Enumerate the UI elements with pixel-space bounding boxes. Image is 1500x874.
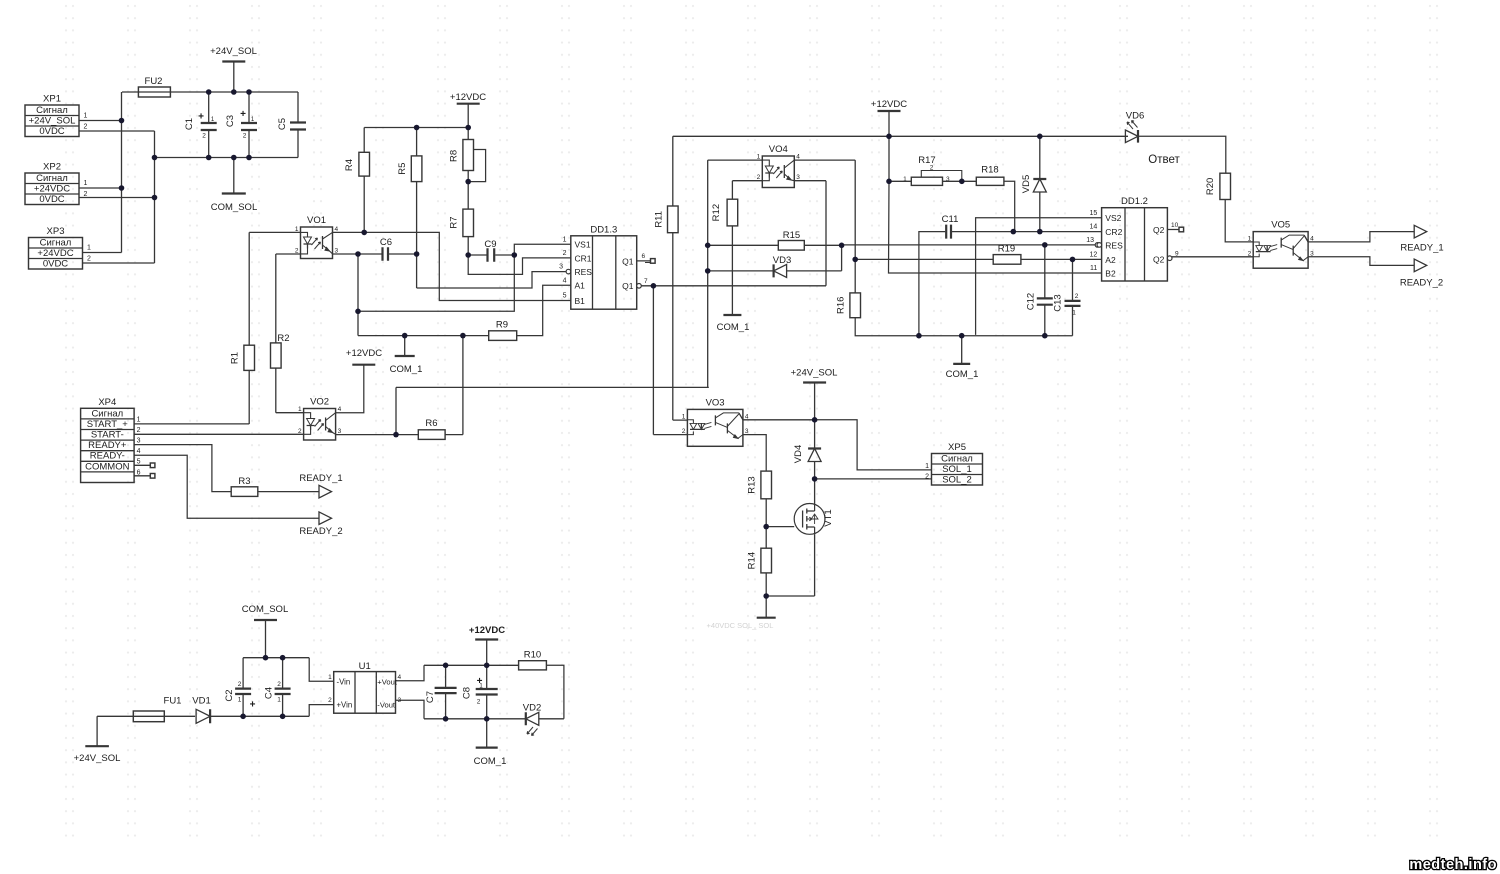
svg-text:COM_1: COM_1	[474, 756, 507, 767]
svg-text:READY_1: READY_1	[299, 473, 342, 484]
svg-text:3: 3	[335, 247, 339, 254]
svg-text:R20: R20	[1205, 178, 1216, 195]
svg-text:COM_SOL: COM_SOL	[211, 202, 257, 213]
svg-text:+12VDC: +12VDC	[871, 99, 907, 110]
svg-text:4: 4	[335, 226, 339, 233]
svg-text:C2: C2	[224, 689, 235, 701]
svg-text:Q1: Q1	[622, 281, 634, 291]
svg-text:1: 1	[925, 463, 929, 470]
svg-text:R15: R15	[783, 230, 800, 241]
svg-text:COM_1: COM_1	[390, 364, 423, 375]
svg-text:C13: C13	[1053, 294, 1064, 311]
svg-text:4: 4	[338, 406, 342, 413]
svg-text:Ответ: Ответ	[1148, 154, 1180, 166]
svg-text:+: +	[198, 112, 204, 123]
svg-text:9: 9	[1175, 250, 1179, 257]
svg-text:1: 1	[328, 674, 332, 681]
svg-text:VS1: VS1	[575, 240, 591, 250]
svg-text:Сигнал: Сигнал	[36, 105, 68, 116]
svg-text:2: 2	[84, 191, 88, 198]
svg-text:R13: R13	[747, 476, 758, 493]
svg-text:-Vin: -Vin	[337, 677, 351, 686]
svg-text:XP5: XP5	[948, 442, 966, 453]
svg-text:VD1: VD1	[192, 696, 210, 707]
svg-text:COM_1: COM_1	[946, 369, 979, 380]
svg-text:3: 3	[338, 428, 342, 435]
svg-text:2: 2	[682, 428, 686, 435]
svg-text:2: 2	[137, 427, 141, 434]
svg-text:4: 4	[563, 278, 567, 285]
svg-text:C1: C1	[184, 118, 195, 130]
svg-text:R14: R14	[747, 552, 758, 569]
svg-text:1: 1	[277, 697, 281, 704]
svg-text:R7: R7	[448, 216, 459, 228]
svg-text:VD3: VD3	[773, 255, 791, 266]
svg-text:VS2: VS2	[1105, 213, 1121, 223]
svg-text:R18: R18	[981, 165, 998, 176]
svg-text:11: 11	[1090, 265, 1097, 272]
svg-text:CR2: CR2	[1105, 227, 1122, 237]
svg-text:R5: R5	[397, 163, 408, 175]
svg-text:2: 2	[925, 473, 929, 480]
svg-text:+24VDC: +24VDC	[34, 183, 70, 194]
svg-text:R16: R16	[836, 297, 847, 314]
svg-text:3: 3	[137, 438, 141, 445]
svg-text:6: 6	[137, 469, 141, 476]
svg-text:2: 2	[277, 681, 281, 688]
svg-text:START_+: START_+	[87, 419, 129, 430]
svg-text:C11: C11	[942, 214, 959, 225]
svg-text:READY_1: READY_1	[1400, 243, 1443, 254]
svg-text:C5: C5	[277, 118, 288, 130]
svg-text:C3: C3	[225, 115, 236, 127]
svg-text:C8: C8	[462, 687, 473, 699]
svg-text:0VDC: 0VDC	[43, 258, 68, 269]
svg-text:4: 4	[398, 674, 402, 681]
svg-text:medteh.info: medteh.info	[1409, 857, 1497, 873]
svg-text:XP2: XP2	[43, 162, 61, 173]
svg-text:VO4: VO4	[769, 144, 788, 155]
svg-text:1: 1	[238, 697, 242, 704]
svg-text:+12VDC: +12VDC	[450, 92, 486, 103]
svg-text:7: 7	[644, 278, 648, 285]
svg-text:4: 4	[137, 448, 141, 455]
svg-text:1: 1	[1072, 310, 1076, 317]
svg-text:XP4: XP4	[98, 397, 116, 408]
svg-text:3: 3	[1310, 250, 1314, 257]
svg-text:1: 1	[84, 113, 88, 120]
svg-text:READY-: READY-	[90, 451, 125, 462]
svg-text:0VDC: 0VDC	[39, 194, 64, 205]
svg-text:+24VDC: +24VDC	[37, 248, 73, 259]
svg-text:2: 2	[930, 165, 934, 172]
svg-text:READY_2: READY_2	[1400, 278, 1443, 289]
svg-text:READY+: READY+	[88, 440, 127, 451]
svg-text:COMMON: COMMON	[85, 461, 129, 472]
svg-text:Сигнал: Сигнал	[36, 173, 68, 184]
svg-text:VT1: VT1	[823, 509, 834, 526]
svg-text:FU2: FU2	[145, 76, 163, 87]
svg-text:A1: A1	[575, 281, 586, 291]
svg-text:4: 4	[796, 154, 800, 161]
svg-text:1: 1	[757, 154, 761, 161]
svg-text:U1: U1	[359, 661, 371, 672]
svg-text:+Vin: +Vin	[337, 701, 353, 710]
svg-text:+Vout: +Vout	[377, 677, 398, 686]
svg-text:15: 15	[1090, 210, 1098, 217]
svg-text:XP1: XP1	[43, 94, 61, 105]
svg-text:2: 2	[238, 681, 242, 688]
svg-text:3: 3	[796, 174, 800, 181]
svg-text:1: 1	[137, 416, 141, 423]
svg-text:+24V_SOL: +24V_SOL	[74, 753, 121, 764]
svg-text:RES: RES	[1105, 240, 1123, 250]
svg-text:R19: R19	[998, 244, 1015, 255]
svg-text:2: 2	[563, 250, 567, 257]
svg-text:VD4: VD4	[793, 445, 804, 463]
svg-text:R11: R11	[653, 211, 664, 228]
svg-text:1: 1	[1248, 235, 1252, 242]
svg-text:R12: R12	[711, 204, 722, 221]
svg-text:+: +	[250, 700, 256, 711]
svg-text:1: 1	[87, 245, 91, 252]
svg-text:RES: RES	[575, 267, 593, 277]
svg-text:VO1: VO1	[307, 215, 326, 226]
svg-text:+24V_SOL: +24V_SOL	[210, 46, 257, 57]
svg-text:VD6: VD6	[1126, 111, 1144, 122]
svg-text:1: 1	[84, 180, 88, 187]
svg-text:CR1: CR1	[575, 253, 592, 263]
svg-text:C12: C12	[1026, 293, 1037, 310]
svg-text:-Vout: -Vout	[377, 701, 396, 710]
svg-text:READY_2: READY_2	[299, 526, 342, 537]
svg-text:R4: R4	[344, 159, 355, 171]
svg-text:10: 10	[1171, 222, 1179, 229]
svg-text:C4: C4	[264, 687, 275, 699]
svg-text:3: 3	[398, 697, 402, 704]
svg-text:14: 14	[1090, 224, 1098, 231]
svg-text:2: 2	[1248, 250, 1252, 257]
svg-text:SOL_2: SOL_2	[942, 474, 972, 485]
svg-text:2: 2	[298, 428, 302, 435]
svg-text:1: 1	[903, 176, 907, 183]
svg-text:6: 6	[642, 253, 646, 260]
svg-text:3: 3	[559, 264, 563, 271]
svg-text:C9: C9	[484, 239, 496, 250]
svg-text:Q2: Q2	[1153, 254, 1165, 264]
svg-text:START-: START-	[91, 430, 124, 441]
svg-text:R10: R10	[524, 650, 541, 661]
svg-text:VD5: VD5	[1021, 175, 1032, 193]
svg-text:R6: R6	[425, 418, 437, 429]
svg-text:+: +	[240, 109, 246, 120]
svg-text:2: 2	[87, 256, 91, 263]
svg-text:R8: R8	[448, 150, 459, 162]
svg-text:4: 4	[1310, 235, 1314, 242]
svg-text:2: 2	[202, 133, 206, 140]
svg-text:2: 2	[477, 699, 481, 706]
svg-text:COM_1: COM_1	[717, 322, 750, 333]
svg-text:DD1.2: DD1.2	[1121, 196, 1148, 207]
svg-text:3: 3	[946, 176, 950, 183]
svg-text:SOL_1: SOL_1	[942, 464, 972, 475]
svg-text:2: 2	[1075, 293, 1079, 300]
svg-text:1: 1	[682, 413, 686, 420]
svg-text:R3: R3	[238, 476, 250, 487]
svg-text:2: 2	[84, 124, 88, 131]
svg-text:+40VDC SOL_ SOL: +40VDC SOL_ SOL	[707, 621, 774, 630]
svg-text:2: 2	[328, 697, 332, 704]
svg-text:VO3: VO3	[706, 397, 725, 408]
svg-text:2: 2	[243, 133, 247, 140]
svg-text:A2: A2	[1105, 255, 1116, 265]
svg-text:FU1: FU1	[164, 696, 182, 707]
svg-text:B1: B1	[575, 296, 586, 306]
svg-text:5: 5	[563, 293, 567, 300]
svg-text:R1: R1	[229, 352, 240, 364]
svg-text:+24V_SOL: +24V_SOL	[791, 368, 838, 379]
svg-text:VO5: VO5	[1271, 220, 1290, 231]
svg-text:Q1: Q1	[622, 256, 634, 266]
svg-text:VO2: VO2	[310, 397, 329, 408]
svg-text:0VDC: 0VDC	[39, 126, 64, 137]
svg-text:XP3: XP3	[47, 226, 65, 237]
svg-text:+12VDC: +12VDC	[469, 625, 505, 636]
svg-text:C7: C7	[425, 691, 436, 703]
svg-text:R9: R9	[496, 320, 508, 331]
svg-text:12: 12	[1090, 251, 1098, 258]
svg-text:Сигнал: Сигнал	[941, 453, 973, 464]
svg-text:Q2: Q2	[1153, 225, 1165, 235]
svg-text:2: 2	[757, 174, 761, 181]
svg-text:4: 4	[745, 413, 749, 420]
svg-text:1: 1	[298, 406, 302, 413]
svg-text:DD1.3: DD1.3	[590, 224, 617, 235]
svg-text:COM_SOL: COM_SOL	[242, 604, 288, 615]
svg-text:R2: R2	[277, 333, 289, 344]
svg-text:5: 5	[137, 459, 141, 466]
svg-text:C6: C6	[380, 237, 392, 248]
svg-text:VD2: VD2	[523, 703, 541, 714]
svg-text:1: 1	[563, 237, 567, 244]
svg-text:Сигнал: Сигнал	[40, 237, 72, 248]
svg-text:3: 3	[745, 428, 749, 435]
svg-text:+12VDC: +12VDC	[346, 348, 382, 359]
svg-text:Сигнал: Сигнал	[91, 408, 123, 419]
svg-text:2: 2	[295, 247, 299, 254]
svg-text:13: 13	[1086, 237, 1094, 244]
svg-text:+24V_SOL: +24V_SOL	[29, 115, 76, 126]
svg-text:B2: B2	[1105, 268, 1116, 278]
svg-text:1: 1	[295, 226, 299, 233]
